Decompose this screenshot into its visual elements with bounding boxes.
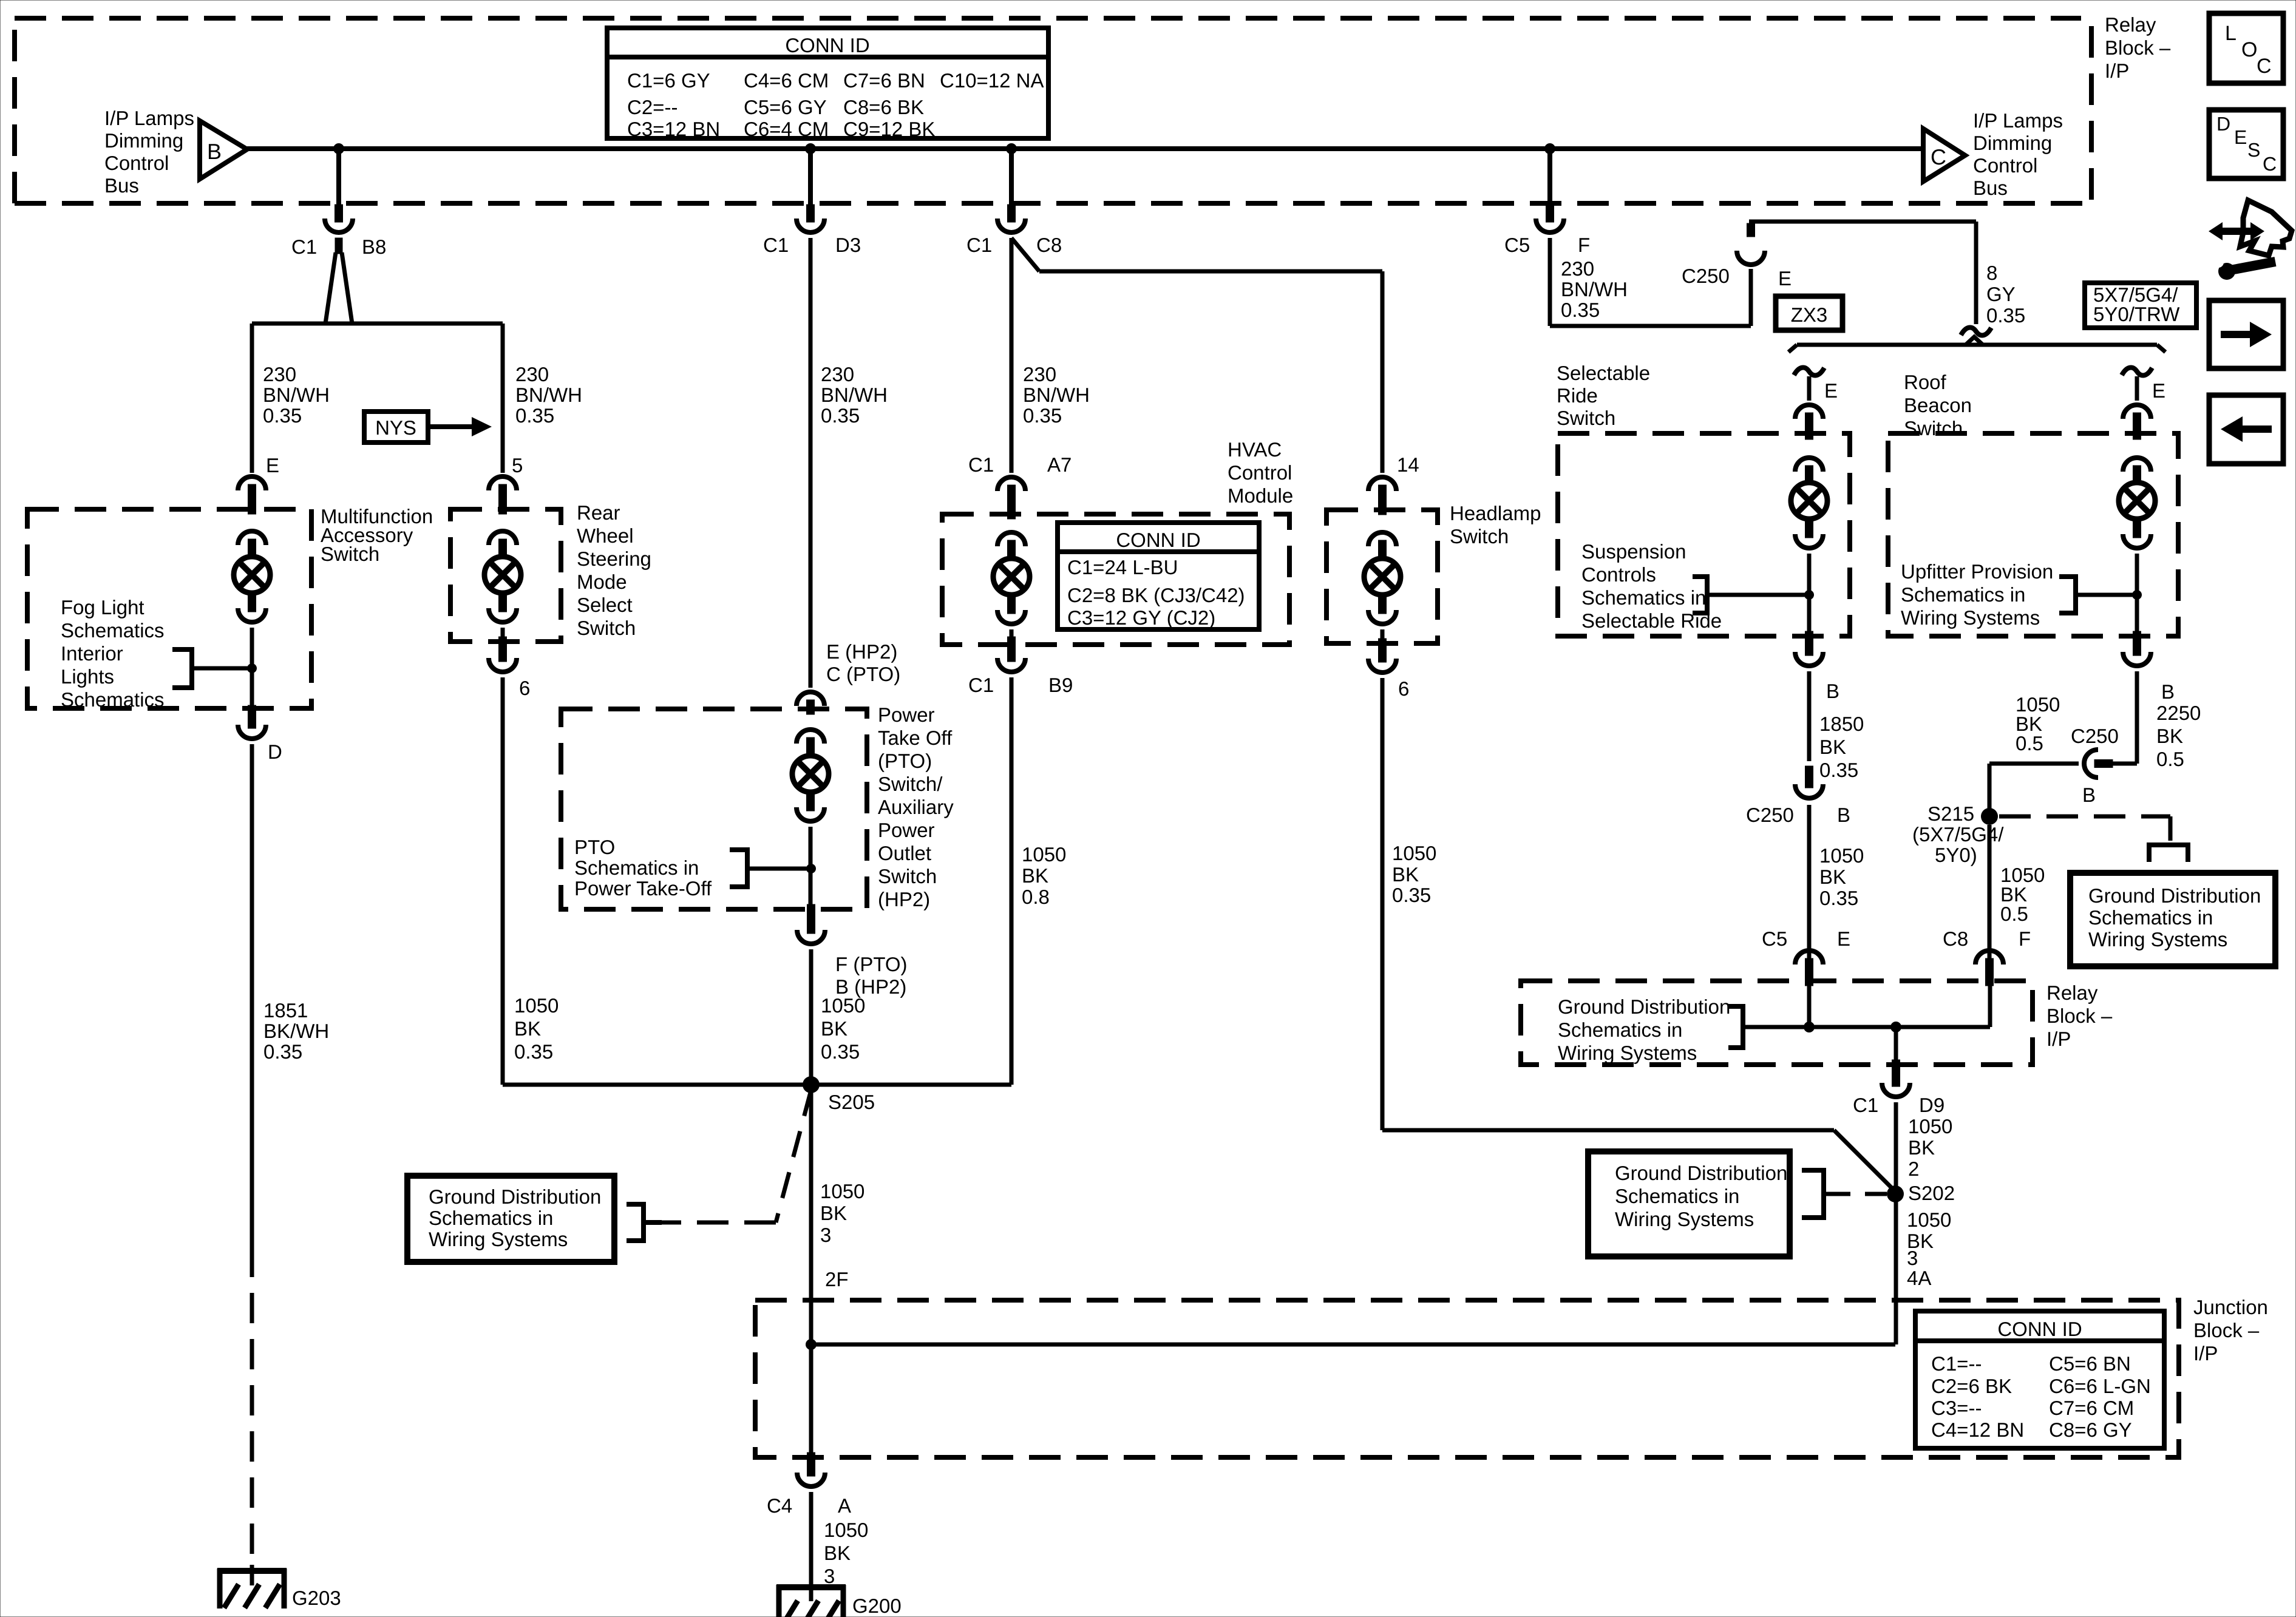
indicator lamp (HVAC module) [993,558,1030,595]
lamp pin upper (selectable ride) [1805,466,1813,483]
wire split to E and 5 [252,253,503,324]
label Roof Beacon Switch [1904,371,1972,439]
bracket tie fog light schematics [172,647,250,690]
svg-text:14: 14 [1397,453,1419,476]
svg-text:B9: B9 [1048,674,1073,696]
ground G203 [217,1568,287,1609]
label Suspension Controls Schematics in Selectable Ride [1581,540,1722,632]
svg-text:Switch: Switch [878,865,937,887]
lamp terminal upper (selectable ride) [1795,458,1823,472]
svg-text:F: F [1578,234,1590,256]
svg-text:0.35: 0.35 [1561,299,1600,321]
connector C5-E (relay block) [1795,951,1823,964]
svg-text:BK: BK [1908,1136,1935,1159]
svg-text:6: 6 [1398,677,1409,700]
lamp terminal lower (HVAC) [997,610,1025,624]
lamp terminal upper (multifunction) [238,531,266,545]
svg-text:1050: 1050 [820,1180,864,1202]
lamp pin lower (rear wheel) [499,593,507,612]
svg-text:BN/WH: BN/WH [1561,278,1628,300]
pin C1-D3 [807,205,815,222]
wire lamp to F(PTO) [809,827,813,910]
svg-text:Switch: Switch [321,543,379,565]
svg-text:0.5: 0.5 [2000,903,2028,925]
svg-text:F: F [2019,927,2031,950]
splice S205 [803,1076,820,1093]
lamp pin upper (headlamp) [1379,540,1387,558]
connector C250-B [1795,784,1823,798]
svg-text:5Y0/TRW: 5Y0/TRW [2093,303,2180,325]
pin A7 into HVAC module [1008,485,1016,519]
lamp pin lower (multifunction) [248,593,256,612]
pin C1-B8 [335,205,343,222]
svg-text:8: 8 [1986,262,1997,284]
svg-text:C7=6 CM: C7=6 CM [2049,1397,2134,1419]
svg-text:C4: C4 [767,1494,792,1517]
svg-text:C5=6 BN: C5=6 BN [2049,1352,2131,1375]
connector C1-B8 [325,219,353,232]
ZX3 option box [1776,296,1843,330]
label Power Take Off (PTO) Switch / Auxiliary Power Outlet Switch (HP2) [878,703,954,910]
connector terminal 14 [1368,477,1396,491]
svg-text:PTO: PTO [574,836,615,858]
svg-text:C5=6 GY: C5=6 GY [744,96,827,118]
pin 6 out of rear wheel switch [499,637,507,662]
svg-text:C1: C1 [968,674,994,696]
svg-text:ZX3: ZX3 [1791,303,1828,326]
svg-text:BK: BK [1392,863,1419,886]
pin C250-E [1747,223,1755,237]
connector C5-F [1536,219,1564,232]
wire bus to C1-C8 [1009,149,1014,206]
pin 14 into headlamp switch [1379,485,1387,515]
dashed tie S205 to ground distribution [662,1090,811,1222]
svg-text:Beacon: Beacon [1904,394,1972,416]
indicator lamp (PTO switch) [792,756,829,792]
5X7/5G4/5Y0/TRW option box [2085,283,2196,328]
svg-text:BK/WH: BK/WH [263,1020,329,1042]
svg-text:Ground Distribution: Ground Distribution [1615,1162,1787,1184]
pin B9 out of HVAC module [1008,637,1016,662]
indicator lamp (multifunction switch) [234,557,270,593]
pin C8-F into relay block [1986,958,1994,986]
wire relay block internal ground rail [1743,981,1990,1027]
connector terminal B (roof beacon) [2123,652,2151,666]
icon arrow right [2209,300,2283,368]
svg-text:Mode: Mode [577,571,627,593]
label circuit 1050 BK 3 (G200) [824,1519,868,1587]
svg-text:230: 230 [515,363,549,385]
label Selectable Ride Switch [1557,362,1650,429]
connector C250-E [1737,251,1765,265]
svg-text:E: E [2152,379,2165,402]
wire 1851 BK/WH [250,744,254,1247]
bracket tie suspension controls [1693,574,1807,615]
label circuit 1851 BK/WH 0.35 [263,999,329,1063]
svg-text:C (PTO): C (PTO) [826,663,900,685]
label circuit 1050 BK 0.5 (upper) [2016,693,2060,754]
svg-text:Ground Distribution: Ground Distribution [429,1185,601,1208]
label circuit 230 BN/WH 0.35 (C5-F) [1561,257,1628,321]
svg-text:BN/WH: BN/WH [1023,384,1090,406]
svg-text:S205: S205 [828,1091,875,1113]
svg-text:HVAC: HVAC [1228,438,1282,461]
svg-text:1050: 1050 [1392,842,1436,864]
svg-text:E: E [1837,927,1850,950]
label terminal F(PTO) B(HP2) [835,953,908,998]
label Ground Distribution Schematics in Wiring Systems (relay) [1558,995,1730,1064]
svg-text:C250: C250 [1746,804,1794,826]
svg-text:Suspension: Suspension [1581,540,1686,563]
svg-text:G203: G203 [292,1587,341,1609]
svg-text:C8: C8 [1943,927,1968,950]
label Fog Light Schematics Interior Lights Schematics [61,596,165,711]
wire 1050 BK to G200 [809,1492,813,1601]
svg-text:BK: BK [2156,725,2183,747]
svg-text:C3=--: C3=-- [1931,1397,1982,1419]
indicator lamp (selectable ride switch) [1791,483,1827,519]
svg-text:0.35: 0.35 [515,404,554,427]
svg-text:C5: C5 [1504,234,1530,256]
svg-text:I/P: I/P [2193,1342,2218,1364]
svg-text:E: E [1824,379,1838,402]
svg-text:230: 230 [263,363,296,385]
wire lamp to pin 6 (headlamp) [1381,629,1385,643]
wire rail to C1-D9 [1894,1027,1898,1065]
wire junction block internal [811,1343,1895,1347]
option brace [1788,337,2165,352]
label circuit 8 GY 0.35 [1986,262,2025,327]
svg-text:S202: S202 [1908,1182,1955,1204]
junction block splice [806,1339,817,1350]
svg-text:0.35: 0.35 [263,404,302,427]
connector terminal B (selectable ride) [1795,652,1823,666]
lamp pin upper (multifunction) [248,539,256,557]
ground distribution reference box (S202) [1588,1151,1790,1256]
svg-text:C250: C250 [1682,265,1730,287]
connector terminal F(PTO)/B(HP2) [797,930,825,944]
wire bus to C5-F [1547,149,1552,206]
svg-text:Steering: Steering [577,547,651,570]
svg-text:BN/WH: BN/WH [821,384,888,406]
lamp pin lower (PTO) [807,792,815,811]
svg-text:Power: Power [878,703,935,726]
wire break symbol (8 GY) [1961,328,1991,336]
connector terminal 6 (headlamp) [1368,659,1396,673]
svg-text:Control: Control [1228,461,1292,484]
svg-text:BK: BK [824,1542,851,1564]
label circuit 1050 BK 0.5 (lower) [2000,864,2045,925]
svg-text:D9: D9 [1919,1094,1944,1116]
svg-text:C: C [2257,55,2272,78]
bracket tie ground distribution (S205) [627,1202,662,1243]
icon hand with wrench [2209,200,2292,280]
junction block I/P box [755,1300,2179,1457]
dashed tie S215 to ground distribution [1999,816,2170,841]
svg-text:S215: S215 [1927,802,1974,825]
wire lamp to B (roof beacon) [2135,554,2139,636]
svg-text:F (PTO): F (PTO) [835,953,908,975]
svg-text:B: B [1837,804,1850,826]
svg-text:Switch/: Switch/ [878,773,943,795]
relay block I/P dashed outline (top) [15,18,2091,203]
svg-text:I/P Lamps: I/P Lamps [104,107,194,129]
svg-text:Schematics: Schematics [61,688,165,711]
svg-text:C1: C1 [763,234,789,256]
svg-text:Dimming: Dimming [104,129,183,152]
svg-text:Wheel: Wheel [577,524,634,547]
svg-text:Upfitter Provision: Upfitter Provision [1901,560,2053,583]
lamp terminal upper (PTO) [796,730,824,744]
svg-text:C3=12 GY (CJ2): C3=12 GY (CJ2) [1067,606,1215,629]
svg-text:1050: 1050 [1022,843,1066,866]
svg-text:D: D [2216,113,2230,135]
svg-text:C1: C1 [1853,1094,1878,1116]
wire 8 GY drop [1974,222,1978,324]
lamp terminal lower (multifunction) [238,608,266,622]
svg-text:3: 3 [824,1565,835,1587]
pin C250-B horizontal [2094,760,2113,768]
svg-text:Selectable: Selectable [1557,362,1650,384]
svg-text:A7: A7 [1047,453,1072,476]
svg-text:C5: C5 [1762,927,1787,950]
svg-text:C8=6 BK: C8=6 BK [843,96,924,118]
wire 2250 BK to C250-B [2112,671,2137,764]
lamp terminal lower (selectable ride) [1795,534,1823,548]
rear wheel steering mode select switch box [450,509,561,642]
connector C8-F (relay block) [1975,951,2003,964]
ground distribution reference box (S205) [407,1176,614,1262]
svg-text:GY: GY [1986,283,2016,305]
svg-text:Power Take-Off: Power Take-Off [574,877,712,900]
lamp pin lower (selectable ride) [1805,519,1813,538]
wire into G203 [250,1565,254,1585]
svg-text:BN/WH: BN/WH [263,384,330,406]
wire 1050 BK 0.5 to C8-F [1988,825,1992,958]
svg-text:BN/WH: BN/WH [515,384,582,406]
svg-text:C8: C8 [1036,234,1062,256]
lamp terminal lower (roof beacon) [2123,534,2151,548]
label S215 (5X7/5G4/5Y0) [1912,802,2004,866]
svg-text:Block –: Block – [2105,36,2171,59]
svg-text:Select: Select [577,594,633,616]
svg-text:BK: BK [820,1202,847,1224]
label Relay Block - I/P [2105,13,2171,82]
CONN ID table (HVAC) [1058,523,1259,629]
lamp terminal lower (rear wheel) [489,608,517,622]
label circuit 1050 BK 0.35 (headlamp) [1392,842,1436,906]
connector terminal E [238,476,266,490]
label Ground Distribution Schematics in Wiring Systems (S205) [429,1185,601,1250]
junction bus/B8 [333,143,344,154]
svg-text:C1: C1 [291,236,317,258]
label circuit 230 BN/WH 0.35 (5) [515,363,582,427]
svg-text:C: C [2263,153,2277,175]
svg-text:(PTO): (PTO) [878,750,932,772]
svg-text:0.35: 0.35 [263,1040,302,1063]
svg-text:1850: 1850 [1819,713,1864,735]
label Junction Block - I/P [2193,1296,2268,1364]
svg-text:Wiring Systems: Wiring Systems [1615,1208,1754,1230]
lamp terminal upper (roof beacon) [2123,458,2151,472]
svg-text:0.5: 0.5 [2016,732,2043,754]
junction bus/C8 [1006,143,1017,154]
svg-text:Ground Distribution: Ground Distribution [2088,884,2261,907]
svg-text:Schematics in: Schematics in [429,1207,553,1229]
svg-text:Ride: Ride [1557,384,1598,407]
wire 1050 BK to S205 rail [501,677,505,1085]
svg-text:E: E [266,454,279,476]
svg-text:S: S [2247,139,2260,161]
svg-text:Controls: Controls [1581,563,1656,586]
wire bus to C1-D3 [808,149,813,206]
svg-text:D: D [268,741,282,763]
label I/P Lamps bus right [1973,109,2063,199]
connector C1-D9 [1882,1083,1910,1097]
svg-text:1050: 1050 [514,994,559,1017]
label Ground Distribution Schematics in Wiring Systems (S215) [2088,884,2261,951]
svg-text:5Y0): 5Y0) [1935,844,1977,866]
svg-text:C1: C1 [968,453,994,476]
label Multifunction Accessory Switch [321,505,433,565]
junction fog-light tie [247,663,257,673]
svg-text:I/P: I/P [2105,59,2129,82]
svg-text:230: 230 [1561,257,1594,280]
connector C1-D3 [796,219,824,232]
svg-text:0.5: 0.5 [2156,748,2184,770]
connector C4-A [797,1473,825,1486]
svg-text:E: E [1778,267,1792,290]
svg-text:230: 230 [1023,363,1056,385]
wire 230 BN/WH to E(HP2) [809,238,813,688]
icon DESC [2209,110,2283,178]
junction bus/C5-F [1544,143,1555,154]
wire 230 BN/WH to E [250,324,254,473]
wire break symbol (selectable ride) [1794,368,1824,376]
wire 1050 BK to junction block [809,949,813,1344]
wire lamp to B9 [1010,629,1014,642]
svg-text:C1=--: C1=-- [1931,1352,1982,1375]
svg-text:Schematics in: Schematics in [574,856,699,879]
pin 6 out of headlamp switch [1379,639,1387,662]
svg-text:C8=6 GY: C8=6 GY [2049,1419,2132,1441]
svg-text:Bus: Bus [1973,177,2008,199]
svg-text:C250: C250 [2071,725,2119,747]
label Rear Wheel Steering Mode Select Switch [577,501,651,639]
wire bus to C1-B8 [336,149,341,206]
junction upfitter tie [2132,590,2142,600]
bracket tie PTO schematics [730,847,809,889]
label Ground Distribution Schematics in Wiring Systems (S202) [1615,1162,1787,1230]
svg-text:E (HP2): E (HP2) [826,640,897,663]
svg-text:I/P Lamps: I/P Lamps [1973,109,2063,132]
svg-text:Power: Power [878,819,935,841]
svg-text:G200: G200 [852,1595,902,1617]
multifunction accessory switch box [27,509,311,708]
svg-text:NYS: NYS [375,416,416,439]
label circuit 230 BN/WH 0.35 (D3) [821,363,888,427]
indicator lamp (roof beacon switch) [2119,483,2155,519]
label I/P Lamps bus left [104,107,194,197]
lamp pin lower (HVAC) [1008,595,1016,614]
connector C1-B9 [997,658,1025,672]
svg-text:Relay: Relay [2105,13,2156,36]
connector terminal E(HP2)/C(PTO) [796,692,824,706]
svg-text:Schematics: Schematics [61,619,165,642]
svg-text:BK: BK [821,1017,847,1040]
svg-text:CONN ID: CONN ID [1116,529,1200,551]
svg-text:2: 2 [1908,1158,1919,1180]
lamp pin upper (HVAC) [1008,540,1016,558]
svg-text:C7=6 BN: C7=6 BN [843,69,925,92]
svg-text:C: C [1931,144,1946,169]
wire stub below C1-B8 [335,238,342,254]
svg-text:Dimming: Dimming [1973,132,2052,154]
bracket tie (S215) [2149,842,2188,862]
wire 1050 BK to S205 rail (B9) [1010,677,1014,1085]
svg-text:I/P: I/P [2046,1028,2071,1050]
svg-text:CONN ID: CONN ID [1997,1318,2082,1340]
svg-text:C4=12 BN: C4=12 BN [1931,1419,2024,1441]
svg-text:Junction: Junction [2193,1296,2268,1318]
junction PTO tie [806,864,816,873]
lamp terminal upper (headlamp) [1368,532,1396,546]
connector terminal E (roof beacon) [2123,405,2151,419]
svg-text:0.35: 0.35 [821,404,860,427]
svg-text:1050: 1050 [824,1519,868,1541]
svg-text:0.35: 0.35 [514,1040,553,1063]
svg-text:BK: BK [1819,736,1846,758]
pin E into roof beacon switch [2133,413,2141,439]
label Upfitter Provision Schematics in Wiring Systems [1901,560,2053,629]
svg-text:0.35: 0.35 [1986,304,2025,327]
node B triangle [200,121,247,179]
wire branch C8 to headlamp switch [1011,238,1382,473]
splice S215 [1981,808,1998,825]
label circuit 1050 BK 0.8 [1022,843,1066,908]
lamp pin upper (rear wheel) [499,539,507,557]
svg-text:Headlamp: Headlamp [1450,502,1541,524]
connector terminal 6 [489,658,517,672]
connector C250-B (horizontal) [2084,750,2098,778]
PTO switch box [561,709,867,909]
label circuit 2250 BK 0.5 [2156,702,2201,770]
svg-text:Switch: Switch [577,617,636,639]
wire to E (selectable ride) [1807,376,1812,401]
svg-text:C1: C1 [966,234,992,256]
svg-text:C1=24 L-BU: C1=24 L-BU [1067,556,1178,578]
svg-text:B: B [207,139,222,164]
svg-text:Auxiliary: Auxiliary [878,796,954,818]
svg-text:B: B [2161,680,2175,703]
svg-text:Interior: Interior [61,642,123,665]
label circuit 1050 BK 3 4A [1907,1209,1951,1289]
svg-text:Switch: Switch [1557,407,1615,429]
label circuit 1050 BK 0.35 (C5-E) [1819,844,1864,909]
svg-text:Relay: Relay [2046,981,2098,1004]
label circuit 1050 BK 0.35 (rear wheel) [514,994,559,1063]
svg-text:C9=12 BK: C9=12 BK [843,118,935,140]
connector terminal D [238,725,266,739]
label circuit 230 BN/WH 0.35 (E) [263,363,330,427]
pin C5-F [1546,205,1554,222]
svg-text:CONN ID: CONN ID [785,34,869,56]
svg-text:Schematics in: Schematics in [1615,1185,1739,1207]
wire 230 BN/WH to pin 5 [501,324,505,473]
pin D out of multifunction switch [248,705,256,728]
bracket tie upfitter provision [2059,574,2135,615]
svg-text:Take Off: Take Off [878,727,953,749]
